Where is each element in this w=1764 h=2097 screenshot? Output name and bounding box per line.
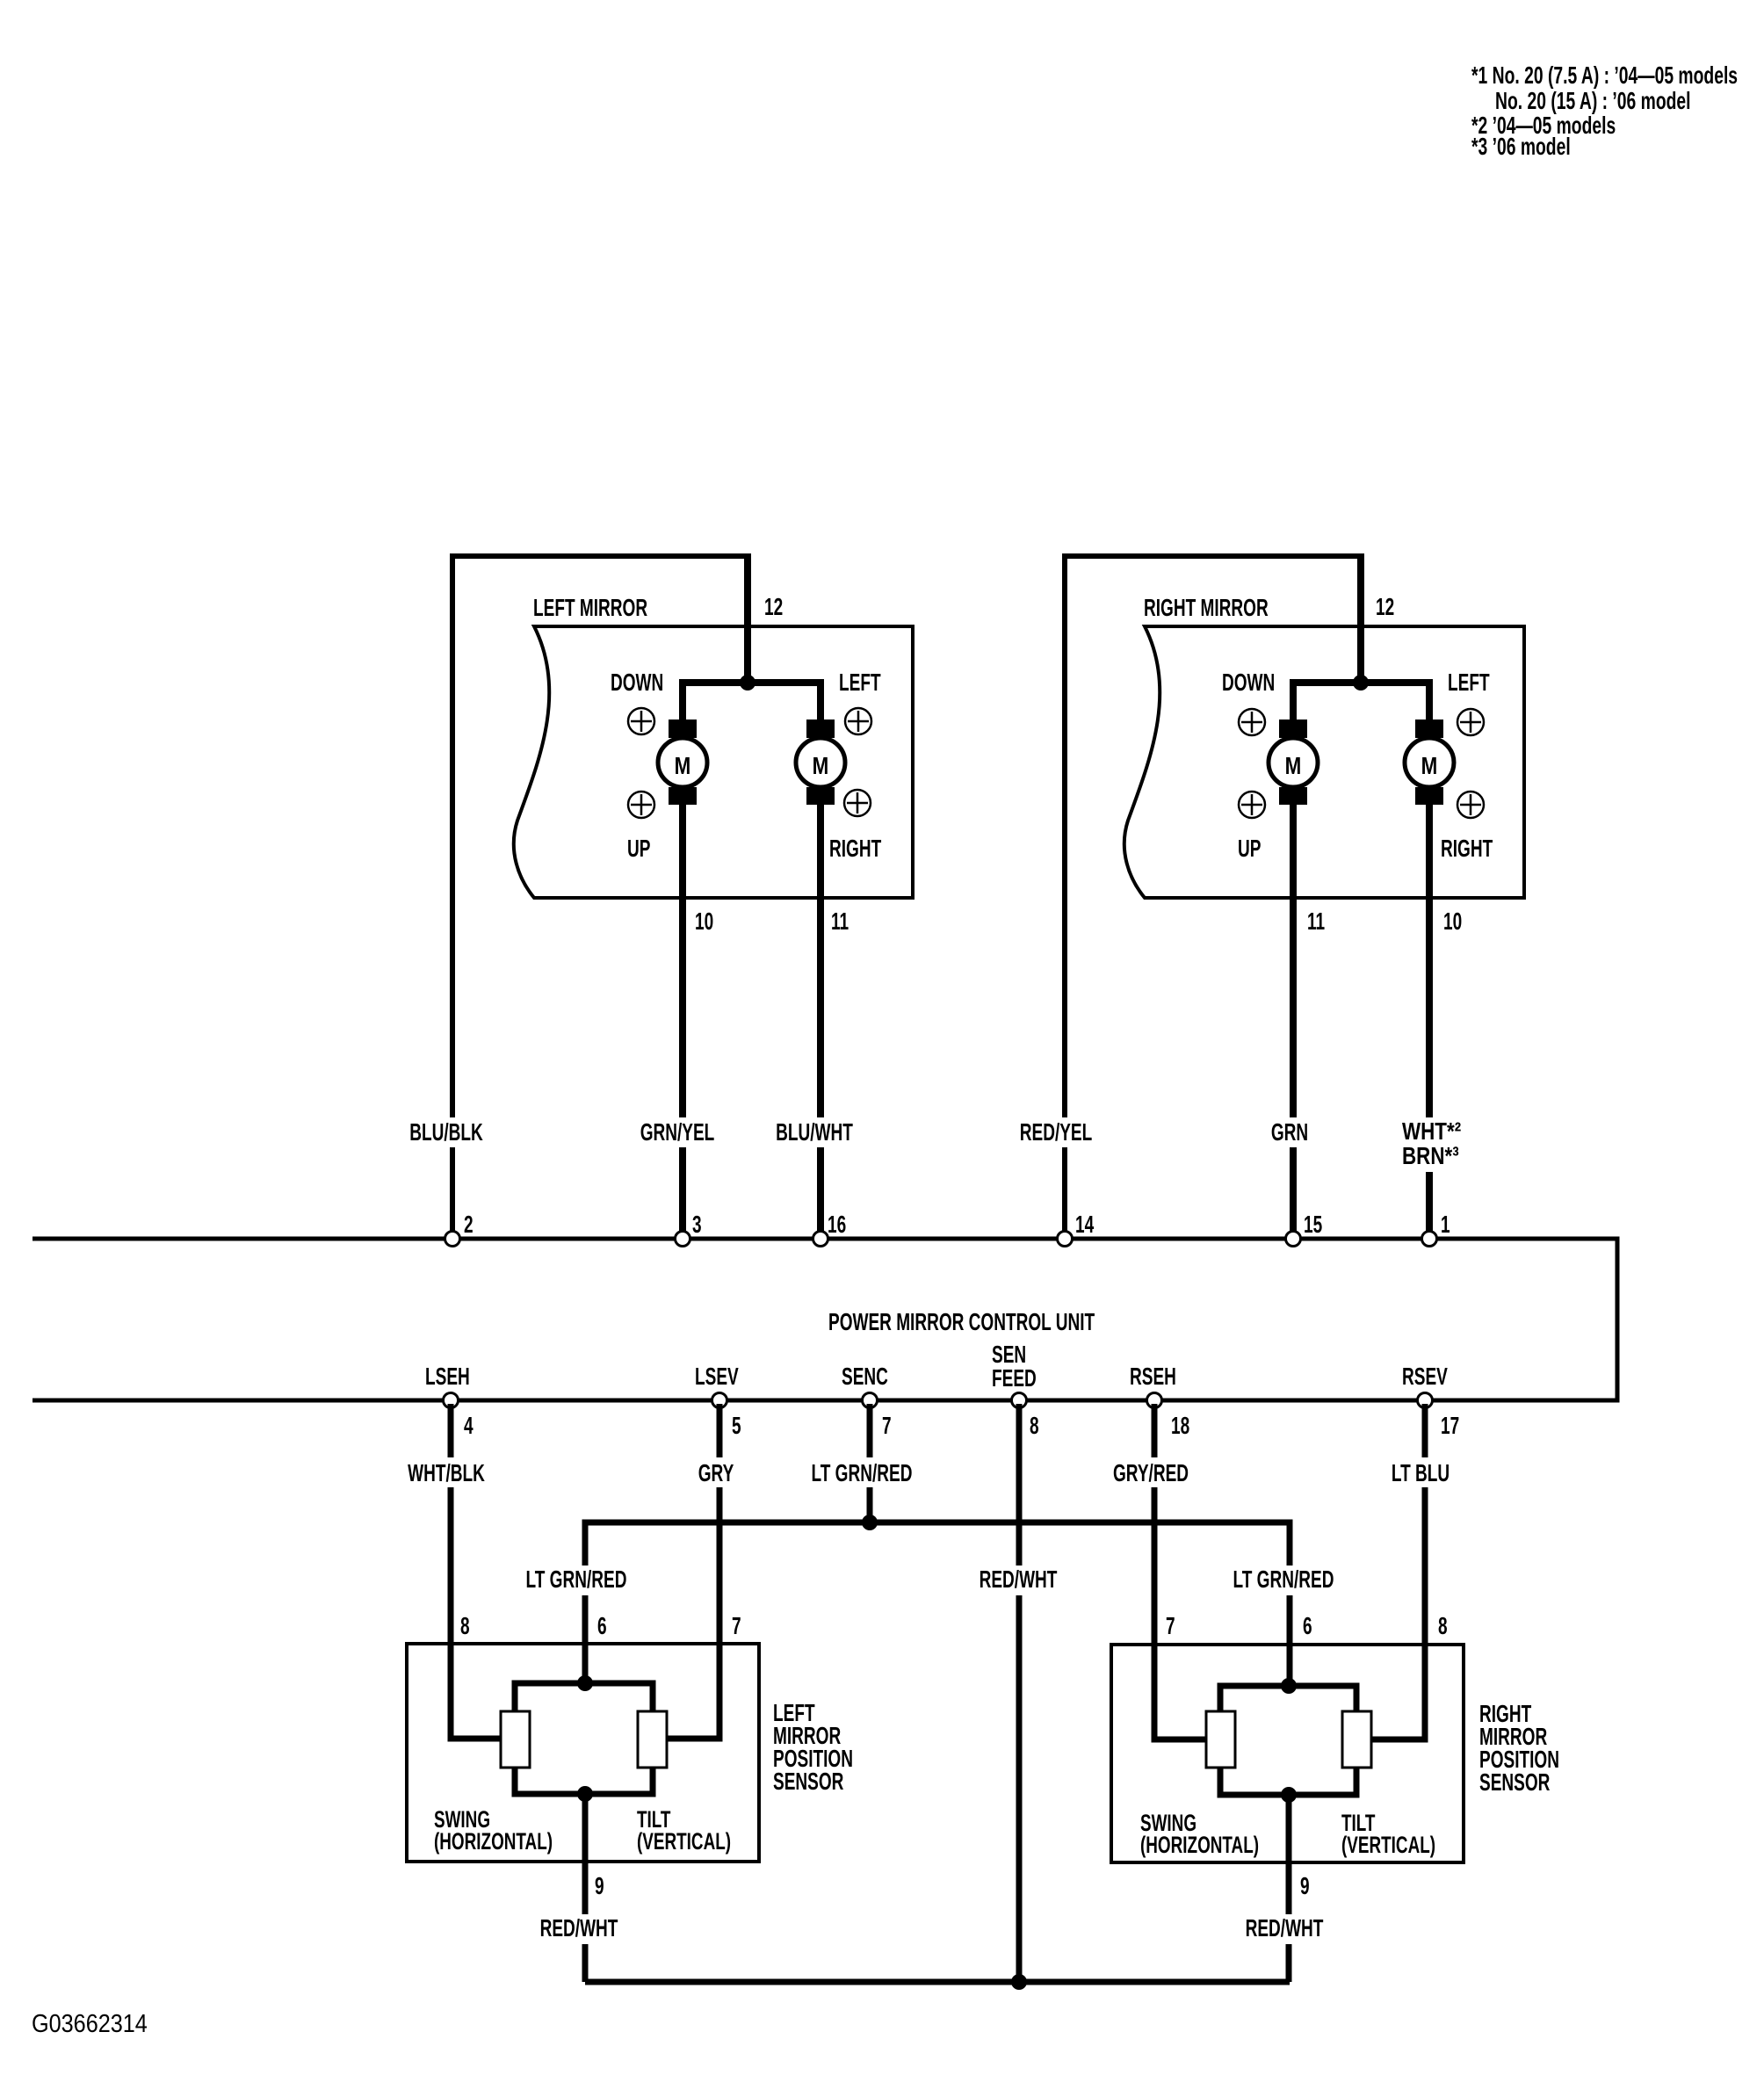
- wire: LSEH pin 4 to left sensor pin 8 (WHT/BLK): [451, 1404, 502, 1739]
- node: SEN FEED junction on RED/WHT rail: [1011, 1974, 1027, 1990]
- svg-text:14: 14: [1075, 1211, 1095, 1239]
- resistor: tilt (vertical) potentiometer: [638, 1711, 667, 1768]
- svg-text:RED/WHT: RED/WHT: [540, 1914, 618, 1942]
- svg-text:WHT*²: WHT*²: [1402, 1118, 1461, 1146]
- resistor: swing (horizontal) potentiometer: [501, 1711, 530, 1768]
- wire label GRN/YEL: [637, 1117, 718, 1147]
- svg-text:WHT/BLK: WHT/BLK: [408, 1459, 485, 1487]
- svg-text:*1 No. 20 (7.5 A) : ’04—05 mod: *1 No. 20 (7.5 A) : ’04—05 models: [1471, 62, 1738, 90]
- wire label LT GRN/RED (right sensor): [1228, 1566, 1339, 1595]
- power mirror control unit bus rails: [33, 1239, 1617, 1400]
- svg-text:11: 11: [1307, 907, 1325, 936]
- svg-text:RSEH: RSEH: [1130, 1363, 1176, 1391]
- svg-text:9: 9: [1300, 1872, 1310, 1900]
- svg-text:(VERTICAL): (VERTICAL): [637, 1828, 731, 1855]
- svg-text:SENSOR: SENSOR: [1479, 1768, 1550, 1797]
- svg-text:8: 8: [460, 1612, 470, 1640]
- polarity mark (+) upper right motor (right mirror): [1457, 709, 1484, 735]
- node: left sensor pin 9 junction (bridge bottom): [577, 1786, 593, 1802]
- label SWING (HORIZONTAL) (right): [1140, 1810, 1259, 1858]
- connector pin 8 (SEN FEED): [1012, 1393, 1027, 1408]
- wire: left mirror feed loop from pin 2 up and over to pin 12 riser: [452, 556, 748, 1239]
- resistor: tilt (vertical) potentiometer (right): [1342, 1711, 1371, 1768]
- wire: left sensor pin 9 drop to RED/WHT rail: [582, 1794, 589, 1982]
- wire label BLU/WHT: [772, 1117, 857, 1147]
- svg-text:UP: UP: [1238, 835, 1261, 863]
- connector pin 16 (BLU/WHT): [813, 1232, 828, 1247]
- wire: bridge from junction to both motor terminals (right mirror): [1293, 683, 1429, 724]
- svg-text:7: 7: [732, 1612, 741, 1640]
- svg-text:M: M: [675, 753, 691, 780]
- wire label BLU/BLK: [406, 1117, 487, 1147]
- svg-text:RED/YEL: RED/YEL: [1020, 1118, 1093, 1146]
- motor M left mirror up/down: [658, 719, 707, 805]
- wire: right mirror feed loop from pin 14 up and over to pin 12 riser: [1065, 556, 1361, 1239]
- svg-text:17: 17: [1441, 1412, 1459, 1440]
- svg-text:FEED: FEED: [992, 1364, 1037, 1392]
- svg-text:No. 20 (15 A) : ’06 model: No. 20 (15 A) : ’06 model: [1495, 88, 1691, 115]
- wire: LSEV pin 5 to left sensor pin 7 (GRY): [664, 1404, 719, 1739]
- svg-text:RIGHT MIRROR: RIGHT MIRROR: [1144, 594, 1269, 622]
- svg-text:*3 ’06 model: *3 ’06 model: [1471, 134, 1571, 161]
- polarity mark (+) lower right motor (right mirror): [1457, 792, 1484, 818]
- svg-text:6: 6: [597, 1612, 607, 1640]
- svg-text:8: 8: [1438, 1612, 1448, 1640]
- node: SENC junction on LT GRN/RED net: [862, 1515, 878, 1530]
- wire: LT GRN/RED net linking both sensor pin 6 risers and SENC: [585, 1522, 1290, 1686]
- connector pin 17 (RSEV): [1418, 1393, 1433, 1408]
- wire label GRY: [695, 1457, 737, 1487]
- svg-text:LT GRN/RED: LT GRN/RED: [812, 1459, 913, 1487]
- svg-text:15: 15: [1304, 1211, 1322, 1239]
- wire label WHT*2 / BRN*3: [1397, 1117, 1469, 1172]
- polarity mark (+) upper left motor (right mirror): [1239, 709, 1265, 735]
- svg-text:2: 2: [464, 1211, 474, 1239]
- wire: bridge from junction to both motor terminals: [683, 683, 821, 724]
- svg-text:DOWN: DOWN: [611, 669, 663, 697]
- svg-text:(HORIZONTAL): (HORIZONTAL): [434, 1828, 553, 1855]
- polarity mark (+) lower left motor: [628, 792, 654, 818]
- connector pin 4 (LSEH): [444, 1393, 459, 1408]
- label TILT (VERTICAL) (right): [1341, 1810, 1435, 1858]
- svg-text:BLU/WHT: BLU/WHT: [776, 1118, 853, 1146]
- svg-text:POWER MIRROR CONTROL UNIT: POWER MIRROR CONTROL UNIT: [828, 1308, 1095, 1336]
- svg-text:1: 1: [1441, 1211, 1450, 1239]
- connector pin 7 (SENC): [863, 1393, 878, 1408]
- wire: RED/WHT rail joining both sensor pin 9 leads and SEN FEED: [585, 1979, 1290, 1985]
- svg-text:UP: UP: [627, 835, 650, 863]
- svg-text:SENC: SENC: [842, 1363, 888, 1391]
- svg-text:12: 12: [1376, 593, 1394, 621]
- label LEFT MIRROR POSITION SENSOR: [773, 1699, 853, 1796]
- wire: RSEV pin 17 to right sensor pin 8 (LT BLU): [1369, 1404, 1425, 1739]
- potentiometer bridge (right sensor): [1220, 1686, 1356, 1795]
- svg-text:DOWN: DOWN: [1222, 669, 1275, 697]
- svg-text:RED/WHT: RED/WHT: [1246, 1914, 1324, 1942]
- wire: RSEH pin 18 to right sensor pin 7 (GRY/RED): [1154, 1404, 1208, 1739]
- svg-text:LSEV: LSEV: [695, 1363, 739, 1391]
- left mirror component box (wavy left edge): [514, 626, 913, 898]
- svg-text:GRN/YEL: GRN/YEL: [640, 1118, 715, 1146]
- svg-text:18: 18: [1171, 1412, 1189, 1440]
- svg-text:8: 8: [1030, 1412, 1039, 1440]
- connector pin 5 (LSEV): [712, 1393, 727, 1408]
- svg-text:LEFT: LEFT: [1448, 669, 1490, 697]
- svg-text:M: M: [813, 753, 829, 780]
- svg-text:LT BLU: LT BLU: [1392, 1459, 1450, 1487]
- connector pin 18 (RSEH): [1147, 1393, 1162, 1408]
- connector pin 1 (WHT/BRN): [1422, 1232, 1437, 1247]
- right mirror component box (wavy left edge): [1124, 626, 1524, 898]
- connector pin 15 (GRN): [1286, 1232, 1301, 1247]
- wire label RED/WHT (sen feed): [972, 1566, 1065, 1595]
- svg-text:16: 16: [828, 1211, 846, 1239]
- wire: right sensor pin 9 drop to RED/WHT rail: [1286, 1795, 1292, 1982]
- svg-text:10: 10: [695, 907, 713, 936]
- node: left sensor pin 6 junction (bridge top): [577, 1675, 593, 1691]
- svg-text:6: 6: [1303, 1612, 1312, 1640]
- svg-text:BLU/BLK: BLU/BLK: [409, 1118, 483, 1146]
- label TILT (VERTICAL): [637, 1806, 731, 1855]
- polarity mark (+) lower left motor (right mirror): [1239, 792, 1265, 818]
- wire: SENC pin 7 drop to LT GRN/RED net: [867, 1404, 873, 1522]
- polarity mark (+) lower right motor: [844, 790, 871, 816]
- wire: left mirror left/right motor lead to pin 11: [817, 801, 824, 1239]
- svg-text:RIGHT: RIGHT: [829, 835, 882, 863]
- svg-text:LEFT MIRROR: LEFT MIRROR: [533, 594, 647, 622]
- svg-text:11: 11: [831, 907, 849, 936]
- svg-text:LT GRN/RED: LT GRN/RED: [1233, 1566, 1334, 1594]
- wire label LT GRN/RED (SENC): [806, 1457, 917, 1487]
- svg-text:SENSOR: SENSOR: [773, 1768, 843, 1796]
- svg-text:GRY: GRY: [698, 1459, 734, 1487]
- svg-text:7: 7: [1166, 1612, 1175, 1640]
- svg-text:12: 12: [764, 593, 783, 621]
- wire label RED/YEL: [1016, 1117, 1096, 1147]
- label RIGHT MIRROR POSITION SENSOR: [1479, 1700, 1559, 1797]
- node: right sensor pin 6 junction (bridge top): [1281, 1678, 1297, 1694]
- svg-text:4: 4: [464, 1412, 474, 1440]
- wire label GRN: [1267, 1117, 1312, 1147]
- resistor: swing (horizontal) potentiometer (right): [1206, 1711, 1235, 1768]
- svg-text:3: 3: [692, 1211, 702, 1239]
- node: right mirror pin 12 junction: [1353, 675, 1369, 691]
- svg-text:LSEH: LSEH: [425, 1363, 470, 1391]
- wire: SEN FEED pin 8 drop to RED/WHT net: [1016, 1404, 1023, 1982]
- svg-text:10: 10: [1443, 907, 1462, 936]
- wire: left mirror pin 12 riser: [744, 553, 751, 683]
- svg-text:GRY/RED: GRY/RED: [1113, 1459, 1189, 1487]
- svg-text:(HORIZONTAL): (HORIZONTAL): [1140, 1832, 1259, 1858]
- wire label LT GRN/RED (left sensor): [521, 1566, 632, 1595]
- svg-text:7: 7: [882, 1412, 892, 1440]
- wire: right mirror pin 12 riser: [1357, 553, 1364, 683]
- wire label WHT/BLK: [406, 1457, 487, 1487]
- svg-text:M: M: [1285, 753, 1302, 780]
- terminal label SEN FEED: [992, 1341, 1037, 1392]
- wire: left mirror up/down motor lead to pin 10: [679, 801, 686, 1239]
- wire label GRY/RED: [1109, 1457, 1193, 1487]
- polarity mark (+) upper left motor: [628, 708, 654, 734]
- wire label RED/WHT (right sensor pin 9): [1238, 1914, 1331, 1944]
- wire: right mirror up/down motor lead to pin 11: [1290, 801, 1297, 1239]
- connector pin 2 (BLU/BLK): [445, 1232, 460, 1247]
- svg-text:RSEV: RSEV: [1402, 1363, 1448, 1391]
- svg-text:GRN: GRN: [1271, 1118, 1308, 1146]
- svg-text:G03662314: G03662314: [32, 2008, 148, 2037]
- svg-text:RIGHT: RIGHT: [1441, 835, 1493, 863]
- wire label LT BLU: [1386, 1457, 1455, 1487]
- wire label RED/WHT (left sensor pin 9): [532, 1914, 625, 1944]
- right mirror position sensor box: [1111, 1645, 1464, 1862]
- note *1 fuse No.20 ratings by model year: [1471, 62, 1738, 115]
- svg-text:5: 5: [732, 1412, 741, 1440]
- connector pin 14 (RED/YEL): [1058, 1232, 1073, 1247]
- svg-text:LEFT: LEFT: [839, 669, 881, 697]
- label SWING (HORIZONTAL): [434, 1806, 553, 1855]
- potentiometer bridge (left sensor): [515, 1683, 653, 1794]
- svg-text:RED/WHT: RED/WHT: [980, 1566, 1058, 1594]
- motor M right mirror left/right: [1405, 719, 1454, 805]
- svg-text:LT GRN/RED: LT GRN/RED: [526, 1566, 627, 1594]
- wire: right mirror left/right motor lead to pin 10: [1426, 801, 1433, 1239]
- motor M right mirror up/down: [1269, 719, 1318, 805]
- svg-text:(VERTICAL): (VERTICAL): [1341, 1832, 1435, 1858]
- svg-text:BRN*³: BRN*³: [1402, 1143, 1459, 1170]
- node: left mirror pin 12 junction: [740, 675, 755, 691]
- svg-text:M: M: [1421, 753, 1438, 780]
- connector pin 3 (GRN/YEL): [676, 1232, 690, 1247]
- motor M left mirror left/right: [796, 719, 845, 805]
- polarity mark (+) upper right motor: [845, 708, 871, 734]
- left mirror position sensor box: [407, 1644, 759, 1862]
- svg-text:9: 9: [595, 1872, 604, 1900]
- node: right sensor pin 9 junction (bridge bottom): [1281, 1787, 1297, 1803]
